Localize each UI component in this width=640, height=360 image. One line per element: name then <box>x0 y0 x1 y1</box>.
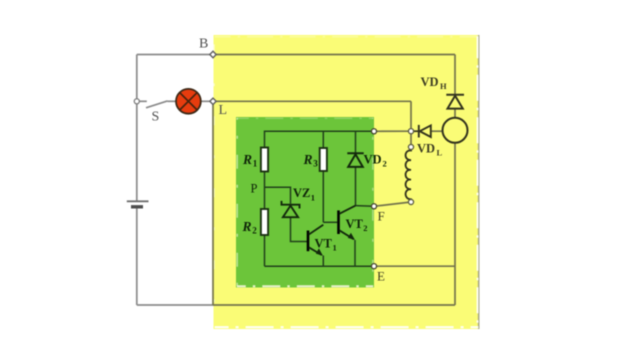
wire: lamp to node L <box>201 100 213 102</box>
node B (diamond) <box>210 51 216 57</box>
switch node <box>134 99 139 104</box>
wire: blade to lamp <box>168 100 177 102</box>
svg-text:F: F <box>378 209 385 224</box>
svg-text:3: 3 <box>313 158 318 168</box>
node F <box>371 204 376 209</box>
generator armature (circle) <box>443 118 468 143</box>
svg-text:2: 2 <box>363 223 367 233</box>
wire: P branch to VZ1 <box>265 187 291 204</box>
node: VDL junction <box>408 129 413 134</box>
wire: green box node to VDL node <box>374 130 411 132</box>
wire: R3 drop from top rail <box>322 131 324 148</box>
svg-text:P: P <box>251 182 258 196</box>
wire: R3 bottom to VT1 collector junction <box>322 171 324 222</box>
svg-text:S: S <box>152 110 160 125</box>
resistor R1 <box>261 148 268 172</box>
svg-text:VD: VD <box>364 153 382 167</box>
node L (diamond) <box>210 98 216 104</box>
wire: left vertical (top corner to battery +) <box>136 55 138 201</box>
wire: L vertical down yellow left edge <box>212 101 214 305</box>
svg-text:1: 1 <box>333 243 337 253</box>
wire: B rail across top of yellow <box>213 54 455 56</box>
resistor R3 <box>320 148 327 171</box>
wire: right vertical B to VDH <box>454 55 456 95</box>
yellow box dash-dot white border <box>214 36 479 328</box>
wire: bottom return (yellow part) <box>213 304 455 306</box>
svg-text:VD: VD <box>421 75 439 89</box>
wire: F line to coil bottom <box>374 202 411 206</box>
generator housing (yellow box) <box>214 35 480 329</box>
svg-text:B: B <box>199 37 208 52</box>
wire: VT1 emitter drop <box>322 256 324 267</box>
diode VDL <box>414 125 431 138</box>
wire: VDH to generator circle <box>454 109 456 118</box>
svg-text:2: 2 <box>383 159 387 169</box>
wire: top-left horizontal B feed <box>137 54 213 56</box>
svg-text:R: R <box>242 152 252 167</box>
svg-text:E: E <box>377 269 385 284</box>
wire: junction to VT2 base <box>323 221 337 223</box>
battery GB <box>127 201 149 207</box>
wire: generator circle to bottom <box>454 143 456 305</box>
wire: VDL node short vertical to coil top <box>410 131 412 147</box>
wire: VD2 anode down to F junction <box>355 168 357 206</box>
wire: E line to right vertical <box>374 265 455 267</box>
wire: R1 bottom through P to R2 <box>264 172 266 210</box>
wire: R2 bottom to ground rail <box>264 235 266 266</box>
node: coil top <box>408 144 413 149</box>
wire: VDL anode to generator <box>431 130 443 132</box>
wire: VD2 drop from top rail <box>355 131 357 152</box>
indicator lamp (red) <box>176 89 201 114</box>
svg-text:VD: VD <box>417 142 435 156</box>
transistor VT1 <box>308 225 323 256</box>
green box dash-dot white border <box>237 118 373 287</box>
wire: L rail to field branch <box>213 100 411 102</box>
svg-text:1: 1 <box>253 158 258 168</box>
svg-text:L: L <box>437 148 443 158</box>
svg-text:R: R <box>303 152 313 167</box>
svg-text:1: 1 <box>311 193 315 203</box>
node: green box top-right <box>371 129 376 134</box>
wire: VT2 emitter drop <box>354 240 356 266</box>
wire: F junction to F node <box>356 205 375 208</box>
zener diode VZ1 <box>282 201 300 217</box>
svg-text:VT: VT <box>346 217 364 231</box>
field winding (coil) <box>406 147 411 202</box>
diode VD2 <box>347 153 363 167</box>
wire: field branch vertical from L rail <box>410 101 412 131</box>
yellow box right edge shading <box>478 35 480 329</box>
regulator (green box) <box>236 117 374 288</box>
wire: green top rail <box>265 131 375 147</box>
wire: bottom return (white part) <box>137 304 214 306</box>
resistor R2 <box>261 209 268 235</box>
svg-text:VZ: VZ <box>293 186 310 200</box>
diode VDH <box>446 95 464 109</box>
svg-text:L: L <box>219 103 228 118</box>
switch S blade <box>146 101 168 108</box>
svg-text:2: 2 <box>252 225 257 235</box>
node: coil bottom <box>408 199 413 204</box>
wire: left vertical (battery - to bottom corner) <box>136 208 138 305</box>
svg-text:R: R <box>242 219 252 234</box>
node E <box>371 264 376 269</box>
wire: switch stub <box>140 100 147 102</box>
wire: VZ1 anode to VT1 base <box>291 217 308 241</box>
wire: green bottom rail to E <box>265 265 375 267</box>
transistor VT2 <box>339 206 356 240</box>
svg-text:H: H <box>440 81 447 91</box>
svg-text:VT: VT <box>315 237 333 251</box>
